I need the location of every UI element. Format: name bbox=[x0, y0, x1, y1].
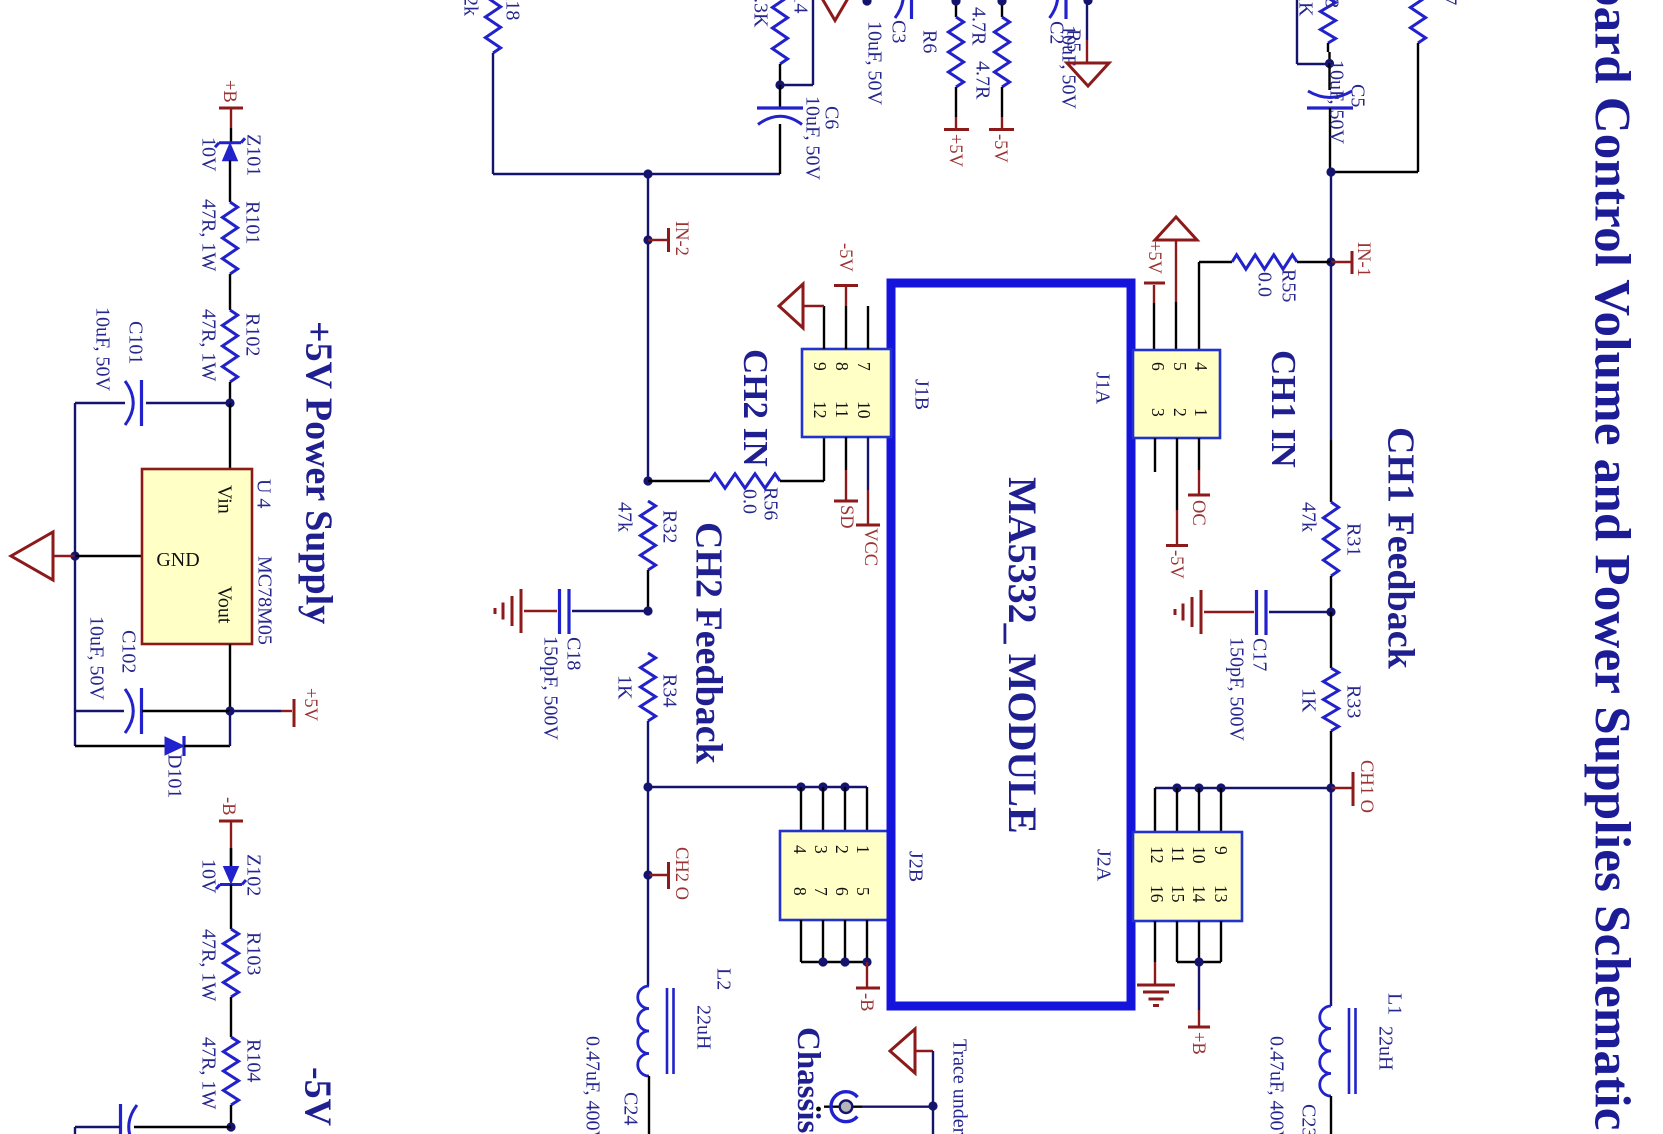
svg-text:16: 16 bbox=[1147, 885, 1167, 903]
svg-text:14: 14 bbox=[1189, 885, 1209, 903]
connector J1B bbox=[802, 349, 891, 437]
svg-text:CH1 IN: CH1 IN bbox=[1264, 350, 1303, 468]
wire bbox=[74, 403, 76, 556]
svg-text:J1B: J1B bbox=[910, 379, 932, 410]
resistor R6 bbox=[955, 1, 957, 17]
svg-text:10uF, 50V: 10uF, 50V bbox=[801, 96, 823, 181]
svg-text:2: 2 bbox=[832, 845, 852, 854]
svg-text:C18: C18 bbox=[562, 637, 584, 670]
wire IN-2 net bbox=[647, 174, 649, 481]
node chassis junction bbox=[928, 1101, 937, 1110]
capacitor C2 bbox=[1064, 0, 1067, 19]
svg-text:11: 11 bbox=[832, 401, 852, 418]
port VCC bbox=[867, 437, 869, 490]
svg-text:SD: SD bbox=[836, 505, 856, 529]
port -5V (J1B) bbox=[845, 306, 847, 349]
svg-text:0.47uF, 400V: 0.47uF, 400V bbox=[581, 1036, 603, 1134]
resistor R104 bbox=[223, 1037, 238, 1105]
port SD bbox=[845, 437, 847, 470]
svg-text:-5V: -5V bbox=[990, 134, 1010, 163]
connector J2A bbox=[1133, 832, 1242, 921]
capacitor C3 bbox=[910, 0, 913, 19]
node Vout junction bbox=[225, 706, 234, 715]
svg-text:J2A: J2A bbox=[1092, 849, 1114, 882]
port +B (J2A) bbox=[1198, 962, 1200, 1010]
resistor R31 bbox=[1323, 502, 1338, 576]
svg-text:R31: R31 bbox=[1342, 523, 1364, 556]
resistor R56 bbox=[648, 480, 710, 482]
diode D101 bbox=[74, 711, 76, 746]
svg-text:+B: +B bbox=[219, 80, 239, 103]
svg-text:47R, 1W: 47R, 1W bbox=[197, 1037, 219, 1109]
svg-text:R104: R104 bbox=[242, 1039, 264, 1082]
svg-text:U 4: U 4 bbox=[252, 479, 274, 508]
svg-text:12: 12 bbox=[1147, 846, 1167, 864]
svg-text:R3: R3 bbox=[1320, 0, 1342, 8]
node GND junction bbox=[70, 551, 79, 560]
svg-text:3: 3 bbox=[1148, 408, 1168, 417]
svg-text:0.47uF, 400V: 0.47uF, 400V bbox=[1265, 1036, 1287, 1134]
resistor R103 bbox=[223, 929, 238, 997]
svg-text:5: 5 bbox=[1170, 362, 1190, 371]
wire bbox=[1296, 0, 1298, 64]
svg-text:+5V Power Supply: +5V Power Supply bbox=[297, 321, 339, 624]
svg-text:CH2 O: CH2 O bbox=[671, 847, 691, 900]
port CH2 O bbox=[643, 870, 652, 879]
svg-text:22uH: 22uH bbox=[692, 1005, 714, 1049]
svg-text:47k: 47k bbox=[1297, 502, 1319, 532]
connector J2B bbox=[780, 831, 891, 920]
svg-text:9: 9 bbox=[810, 362, 830, 371]
power -5V (R5) bbox=[1001, 117, 1003, 128]
node -B rail bbox=[818, 957, 827, 966]
svg-text:10uF, 50V: 10uF, 50V bbox=[1325, 60, 1347, 145]
svg-text:10V: 10V bbox=[197, 137, 219, 172]
svg-text:J1A: J1A bbox=[1091, 372, 1113, 405]
svg-text:R6: R6 bbox=[918, 30, 940, 53]
svg-text:C17: C17 bbox=[1248, 638, 1270, 671]
wire J2A bottom stubs bbox=[1176, 921, 1178, 962]
svg-text:+B: +B bbox=[1188, 1032, 1208, 1055]
svg-text:C101: C101 bbox=[124, 321, 146, 364]
node C103 junction bbox=[226, 1122, 235, 1131]
chassis arrow bbox=[890, 1029, 915, 1073]
node C18 junction bbox=[643, 606, 652, 615]
inductor L1 bbox=[1320, 1006, 1331, 1096]
svg-text:Chassis: Chassis bbox=[790, 1027, 826, 1134]
svg-text:IN-1: IN-1 bbox=[1353, 242, 1373, 277]
svg-text:R34: R34 bbox=[658, 674, 680, 707]
svg-text:Z102: Z102 bbox=[242, 854, 264, 896]
svg-text:10uF, 50V: 10uF, 50V bbox=[85, 616, 107, 701]
wire NC stub J1A bbox=[1154, 438, 1156, 472]
svg-text:-5V Power Supply: -5V Power Supply bbox=[296, 1067, 338, 1134]
port +5V (U4) bbox=[230, 710, 281, 712]
module MA5332 bbox=[891, 283, 1131, 1006]
inductor L2 bbox=[638, 986, 649, 1076]
svg-text:OC: OC bbox=[1188, 500, 1208, 526]
node C17 junction bbox=[1326, 607, 1335, 616]
svg-text:VCC: VCC bbox=[860, 528, 880, 566]
port -B (J2B) bbox=[866, 962, 868, 987]
resistor R32 bbox=[640, 501, 655, 570]
capacitor C6 bbox=[779, 85, 781, 108]
wire CH1 feedback net bbox=[1330, 262, 1332, 440]
svg-text:-B: -B bbox=[218, 797, 238, 816]
capacitor C103 bbox=[134, 1126, 231, 1128]
svg-text:-B: -B bbox=[856, 993, 876, 1012]
capacitor C17 bbox=[1269, 611, 1331, 613]
resistor R14 bbox=[772, 0, 787, 64]
ground arrow (top, cut) bbox=[822, 0, 849, 21]
svg-text:0.0: 0.0 bbox=[738, 489, 760, 514]
node C5 top junction bbox=[1325, 59, 1334, 68]
svg-text:MC78M05: MC78M05 bbox=[253, 556, 275, 645]
svg-text:4.7R: 4.7R bbox=[971, 61, 993, 100]
power +5V arrow (J1A) bbox=[1155, 217, 1197, 240]
zener Z101 bbox=[219, 141, 241, 144]
svg-text:4: 4 bbox=[790, 845, 810, 854]
zener Z102 bbox=[224, 867, 239, 884]
svg-text:47R, 1W: 47R, 1W bbox=[197, 929, 219, 1001]
capacitor C101 bbox=[146, 402, 230, 404]
svg-text:10V: 10V bbox=[197, 859, 219, 894]
svg-text:CH2 IN: CH2 IN bbox=[736, 349, 775, 467]
svg-text:MA5332_ MODULE: MA5332_ MODULE bbox=[1000, 477, 1045, 834]
wire bbox=[780, 84, 813, 86]
svg-text:9: 9 bbox=[1211, 846, 1231, 855]
svg-text:150pF, 500V: 150pF, 500V bbox=[1225, 637, 1247, 742]
resistor R3 bbox=[1320, 0, 1335, 43]
svg-text:R33: R33 bbox=[1342, 685, 1364, 718]
svg-text:15: 15 bbox=[1168, 885, 1188, 903]
ground (C17) bbox=[1204, 611, 1254, 613]
svg-text:+5V: +5V bbox=[945, 134, 965, 168]
svg-text:11: 11 bbox=[1168, 846, 1188, 863]
svg-text:-5V: -5V bbox=[835, 243, 855, 272]
chassis pad bbox=[862, 1105, 933, 1107]
svg-text:8: 8 bbox=[790, 887, 810, 896]
capacitor C102 bbox=[74, 556, 76, 711]
svg-text:Keyboard Control Volume and Po: Keyboard Control Volume and Power Suppli… bbox=[1584, 0, 1640, 1131]
resistor R102 bbox=[222, 310, 237, 382]
resistor R7 bbox=[1410, 0, 1425, 43]
resistor R55 bbox=[1199, 261, 1232, 263]
wire J2B top stubs bbox=[800, 787, 802, 831]
svg-text:R32: R32 bbox=[658, 510, 680, 543]
svg-text:R7: R7 bbox=[1438, 0, 1460, 5]
wire CH2 output rail bbox=[648, 786, 867, 788]
svg-text:4: 4 bbox=[1191, 362, 1211, 371]
svg-text:1: 1 bbox=[1191, 408, 1211, 417]
svg-text:L2: L2 bbox=[712, 968, 734, 990]
wire NC stub J1B bbox=[867, 306, 869, 349]
svg-text:R14: R14 bbox=[789, 0, 811, 13]
svg-text:D101: D101 bbox=[163, 754, 185, 798]
svg-text:12: 12 bbox=[810, 401, 830, 419]
resistor R33 bbox=[1330, 612, 1332, 668]
node CH1 O junction bbox=[1326, 783, 1335, 792]
svg-text:-5V: -5V bbox=[1166, 550, 1186, 579]
port IN-1 bbox=[1331, 261, 1351, 263]
svg-text:C23: C23 bbox=[1297, 1104, 1319, 1134]
svg-text:R55: R55 bbox=[1277, 269, 1299, 302]
wire J2A top stubs bbox=[1176, 788, 1178, 832]
svg-text:2k: 2k bbox=[459, 0, 481, 16]
capacitor C18 bbox=[572, 610, 648, 612]
svg-text:10: 10 bbox=[1189, 846, 1209, 864]
svg-text:R102: R102 bbox=[241, 313, 263, 356]
port IN-2 bbox=[643, 235, 652, 244]
node IN-1 junction bbox=[1326, 257, 1335, 266]
resistor R18 bbox=[485, 0, 500, 53]
svg-text:C3: C3 bbox=[887, 20, 909, 43]
svg-text:47R, 1W: 47R, 1W bbox=[197, 199, 219, 271]
node top-rail junction bbox=[862, 0, 871, 6]
ground (C18) bbox=[524, 610, 557, 612]
svg-text:7: 7 bbox=[811, 887, 831, 896]
power +5V (R6) bbox=[955, 117, 957, 128]
svg-text:47R, 1W: 47R, 1W bbox=[197, 309, 219, 381]
svg-text:1: 1 bbox=[853, 845, 873, 854]
svg-text:Vin: Vin bbox=[213, 485, 235, 514]
svg-text:5: 5 bbox=[853, 887, 873, 896]
svg-text:13: 13 bbox=[1211, 885, 1231, 903]
port CH1 O bbox=[1331, 787, 1352, 789]
svg-text:+5V: +5V bbox=[300, 688, 320, 722]
ground arrow (J1B) bbox=[823, 306, 825, 349]
capacitor C5 bbox=[1328, 63, 1330, 90]
node J2B pin3 tap bbox=[840, 782, 849, 791]
svg-text:3.3K: 3.3K bbox=[749, 0, 771, 28]
svg-text:7: 7 bbox=[854, 362, 874, 371]
node Vin junction bbox=[225, 398, 234, 407]
resistor R101 bbox=[222, 202, 237, 274]
svg-text:1K: 1K bbox=[613, 675, 635, 700]
svg-text:4.7R: 4.7R bbox=[967, 7, 989, 46]
svg-text:6: 6 bbox=[1148, 362, 1168, 371]
svg-text:0.0: 0.0 bbox=[1253, 272, 1275, 297]
svg-text:150pF, 500V: 150pF, 500V bbox=[539, 636, 561, 741]
wire bbox=[229, 644, 231, 711]
node IN-2 rail junction bbox=[643, 169, 652, 178]
svg-text:22uH: 22uH bbox=[1374, 1026, 1396, 1070]
resistor R5 bbox=[1001, 1, 1003, 17]
svg-text:CH2 Feedback: CH2 Feedback bbox=[687, 522, 729, 765]
svg-text:Trace under: Trace under bbox=[948, 1039, 970, 1134]
svg-text:C102: C102 bbox=[117, 630, 139, 673]
node J2B pin2 tap bbox=[818, 782, 827, 791]
node J2B pin1 tap bbox=[796, 782, 805, 791]
wire bbox=[1330, 788, 1332, 1006]
svg-text:R18: R18 bbox=[501, 0, 523, 20]
svg-text:R56: R56 bbox=[759, 487, 781, 520]
svg-text:Z101: Z101 bbox=[242, 134, 264, 176]
svg-text:2: 2 bbox=[1170, 408, 1190, 417]
ground arrow (U4) bbox=[52, 555, 75, 557]
node J2A taps bbox=[1172, 783, 1181, 792]
node +B rail junction bbox=[1194, 957, 1203, 966]
node R56 junction bbox=[643, 476, 652, 485]
svg-text:Vout: Vout bbox=[213, 586, 235, 624]
svg-text:L1: L1 bbox=[1383, 993, 1405, 1015]
svg-text:R103: R103 bbox=[242, 932, 264, 975]
svg-text:3: 3 bbox=[811, 845, 831, 854]
svg-text:1K: 1K bbox=[1297, 688, 1319, 713]
svg-text:IN-2: IN-2 bbox=[671, 221, 691, 256]
node CH2 rail junction bbox=[643, 782, 652, 791]
regulator U4 MC78M05 bbox=[142, 469, 252, 644]
connector J1A bbox=[1133, 350, 1220, 438]
svg-text:10uF, 50V: 10uF, 50V bbox=[863, 21, 885, 106]
svg-text:CH1 Feedback: CH1 Feedback bbox=[1379, 427, 1421, 670]
svg-text:GND: GND bbox=[156, 549, 199, 571]
wire J2B bottom stubs bbox=[800, 920, 802, 962]
ground arrow (top right) bbox=[1083, 0, 1092, 5]
svg-text:10uF, 50V: 10uF, 50V bbox=[91, 307, 113, 392]
svg-text:CH1 O: CH1 O bbox=[1356, 760, 1376, 813]
ground (J2A) bbox=[1154, 921, 1156, 962]
svg-text:C5: C5 bbox=[1346, 84, 1368, 107]
svg-text:J2B: J2B bbox=[904, 851, 926, 882]
svg-text:C24: C24 bbox=[619, 1092, 641, 1125]
resistor R34 bbox=[640, 653, 655, 721]
svg-text:47k: 47k bbox=[613, 502, 635, 532]
svg-text:8: 8 bbox=[832, 362, 852, 371]
wire CH1 output rail bbox=[1155, 787, 1331, 789]
wire bbox=[492, 53, 494, 174]
port OC bbox=[1198, 438, 1200, 470]
port -5V (J1A) bbox=[1176, 438, 1178, 510]
svg-text:6: 6 bbox=[832, 887, 852, 896]
svg-text:+5V: +5V bbox=[1144, 241, 1164, 275]
svg-text:10uF, 50V: 10uF, 50V bbox=[1057, 25, 1079, 110]
svg-text:R101: R101 bbox=[241, 201, 263, 244]
wire IN-1 net bbox=[1330, 172, 1332, 262]
node R14/C6 junction bbox=[775, 80, 784, 89]
wire bbox=[647, 787, 649, 986]
node C5 bottom junction bbox=[1326, 167, 1335, 176]
svg-text:10: 10 bbox=[854, 401, 874, 419]
